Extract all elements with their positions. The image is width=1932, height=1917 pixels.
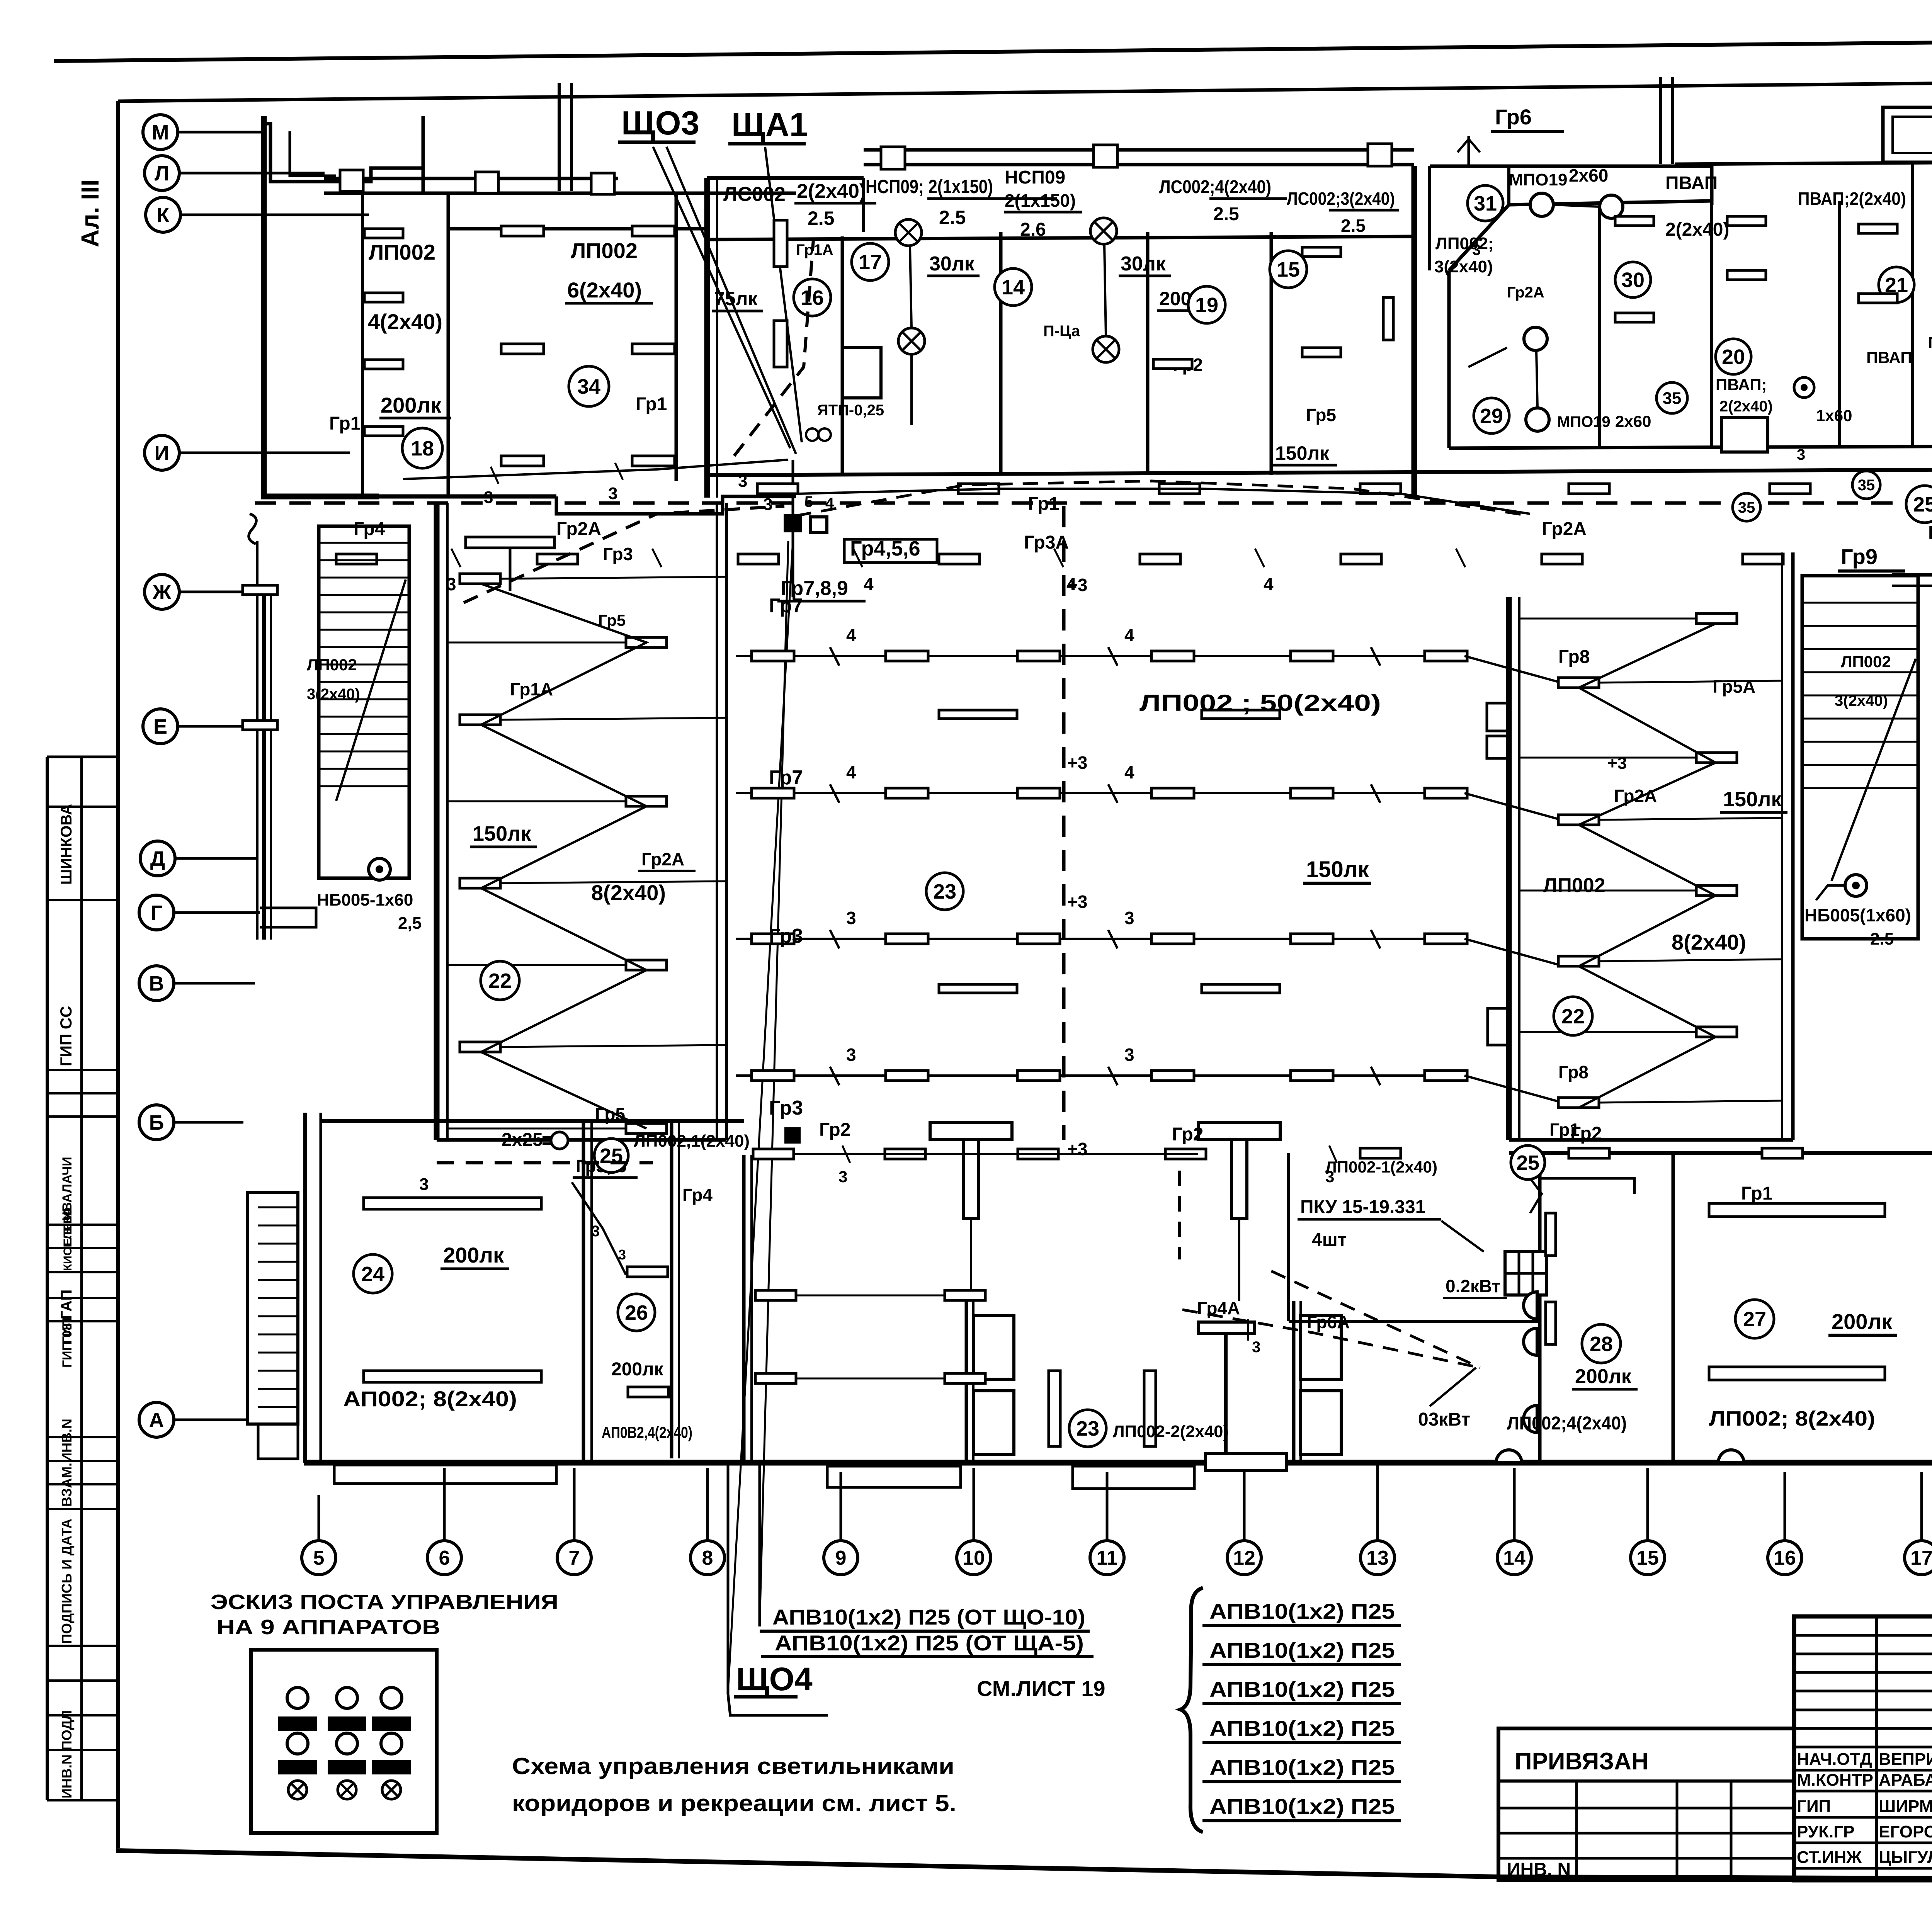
tambour stem line	[1238, 1219, 1240, 1301]
wall divider room18	[447, 193, 450, 496]
fixture far-left a	[243, 585, 277, 595]
room 22 right	[1554, 997, 1592, 1035]
svg-text:ШИРМАНОВ: ШИРМАНОВ	[1879, 1797, 1932, 1816]
svg-text:9: 9	[835, 1547, 847, 1569]
canopy bottom line	[864, 163, 1414, 167]
stamp row sep	[47, 1714, 118, 1716]
fixture room15 vert	[1383, 297, 1393, 340]
stair tread	[1802, 718, 1918, 720]
column grid 6	[427, 1468, 461, 1575]
fixture vert vestibule	[1049, 1371, 1060, 1446]
svg-text:3: 3	[618, 1247, 626, 1263]
fixture 28 vert	[1546, 1213, 1556, 1256]
svg-text:ЛП002: ЛП002	[1841, 653, 1891, 671]
svg-text:2.5: 2.5	[1213, 204, 1239, 224]
svg-text:А: А	[149, 1409, 164, 1432]
fixture wing left col B	[626, 796, 667, 806]
stair tread	[1802, 764, 1918, 766]
dashed Гр4А	[1182, 1310, 1480, 1368]
fixture corridor bottom row	[1762, 1148, 1803, 1158]
bulb room31 b	[1600, 195, 1623, 218]
svg-text:18: 18	[411, 437, 434, 460]
fixture hall row	[886, 1071, 928, 1081]
room 15	[1270, 251, 1307, 288]
fixture room19	[1153, 359, 1192, 369]
wall lamp bottom	[1496, 1450, 1522, 1463]
svg-text:ИНВ. N: ИНВ. N	[1507, 1859, 1571, 1880]
stamp row sep	[47, 1749, 118, 1751]
svg-text:Гр6А: Гр6А	[1307, 1312, 1350, 1332]
svg-text:2(1х150): 2(1х150)	[1005, 190, 1076, 211]
svg-text:2.5: 2.5	[808, 207, 835, 229]
fixture hall row	[1425, 1071, 1467, 1081]
svg-text:150лк: 150лк	[1723, 788, 1782, 811]
fixture hall row	[1425, 651, 1467, 661]
wall south of 29/35	[1449, 446, 1932, 448]
svg-text:Е: Е	[153, 715, 167, 738]
stamp row sep	[47, 1069, 118, 1071]
wire lamps 14	[1104, 244, 1106, 336]
svg-text:2(2х40): 2(2х40)	[1719, 398, 1773, 415]
svg-text:Гр5: Гр5	[598, 611, 626, 629]
dashed room16	[734, 240, 813, 456]
room 34	[569, 366, 609, 406]
svg-text:Гр1А: Гр1А	[796, 241, 833, 258]
fixture wing right col B	[1696, 1027, 1737, 1037]
stair tread	[319, 646, 409, 648]
column grid 15	[1631, 1468, 1665, 1575]
duct box hall wall b	[1487, 736, 1509, 758]
wall lamp Д	[1524, 1405, 1537, 1433]
svg-text:4: 4	[1264, 574, 1274, 594]
fixture hall row	[1291, 1071, 1333, 1081]
fixture hall row	[1291, 788, 1333, 798]
canopy post	[475, 172, 498, 193]
column grid 16	[1768, 1472, 1802, 1575]
svg-text:200лк: 200лк	[443, 1243, 504, 1267]
wire node vertical	[792, 460, 794, 514]
stair tread	[1802, 602, 1918, 604]
svg-text:2.5: 2.5	[1341, 216, 1366, 236]
wire row to wing	[1464, 939, 1558, 965]
svg-text:НБ005-1х60: НБ005-1х60	[317, 891, 413, 909]
svg-text:0.2кВт: 0.2кВт	[1446, 1276, 1500, 1296]
door posts	[966, 1301, 1014, 1463]
wire zigzag wing	[481, 584, 646, 1128]
sheet bottom border	[116, 1851, 1932, 1881]
wall vestibule left	[742, 1155, 746, 1463]
fixture hall row	[1425, 788, 1467, 798]
main dashed feeder	[255, 501, 1932, 505]
svg-text:4: 4	[846, 762, 856, 782]
stair tread bottom-left	[258, 1370, 298, 1372]
stair tread	[319, 542, 409, 544]
svg-text:Б: Б	[149, 1111, 164, 1134]
riser to ЩО4 b	[728, 541, 793, 1692]
bulb room29 b	[1526, 408, 1549, 431]
stair tread	[319, 681, 409, 683]
wall stub	[862, 178, 865, 232]
svg-text:ПКУ 15-19.331: ПКУ 15-19.331	[1300, 1197, 1425, 1217]
svg-text:РУК.ГР: РУК.ГР	[1797, 1822, 1855, 1841]
svg-text:8(2х40): 8(2х40)	[1672, 930, 1746, 954]
stamp row sep	[47, 1483, 118, 1485]
fixture wing left col B	[626, 960, 667, 970]
title block	[1794, 1616, 1932, 1880]
fixture hall row	[1151, 788, 1194, 798]
svg-text:Ал. III: Ал. III	[76, 179, 104, 247]
svg-text:2,5: 2,5	[398, 914, 422, 933]
fixture vestibule	[945, 1373, 985, 1383]
svg-text:3: 3	[1124, 908, 1134, 928]
svg-text:4(2х40): 4(2х40)	[368, 309, 442, 334]
exterior step right	[1073, 1466, 1194, 1489]
stair tread bottom-left	[258, 1225, 298, 1227]
wire corridor Гр1	[798, 489, 1530, 514]
column grid 7	[557, 1468, 591, 1575]
stair tread	[1802, 741, 1918, 743]
wall divider room34 right	[675, 193, 678, 481]
svg-text:+3: +3	[1067, 753, 1087, 773]
svg-text:2.5: 2.5	[1870, 930, 1894, 948]
fixture corridor south row	[1341, 554, 1381, 564]
wall 28 left	[1538, 1153, 1542, 1463]
wall slanted room31	[1449, 166, 1712, 270]
stub below	[509, 548, 512, 591]
fixture corridor south row	[1743, 554, 1783, 564]
svg-text:Д: Д	[150, 847, 165, 870]
svg-text:Гр2А: Гр2А	[556, 519, 601, 539]
stair tread bottom-left	[258, 1406, 298, 1408]
T pillar	[1198, 1322, 1287, 1470]
svg-text:3: 3	[608, 484, 617, 503]
stair tread	[1802, 625, 1918, 627]
fixture hall row	[1291, 651, 1333, 661]
svg-text:ЯТП-0,25: ЯТП-0,25	[817, 402, 884, 419]
svg-text:34: 34	[577, 375, 600, 398]
svg-text:24: 24	[361, 1263, 384, 1286]
wire Гр1	[403, 460, 788, 479]
fixture room34	[632, 456, 675, 466]
stair tread	[319, 664, 409, 666]
exterior step	[827, 1466, 961, 1487]
fixture hall row	[886, 651, 928, 661]
stair tread bottom-left	[258, 1334, 298, 1336]
svg-text:2х25: 2х25	[502, 1130, 543, 1150]
stair tread bottom-left	[258, 1315, 298, 1317]
svg-text:П-Ца: П-Ца	[1043, 323, 1080, 340]
wall 24 right b	[590, 1121, 593, 1463]
panel box	[1505, 1252, 1547, 1295]
stamp row sep	[47, 1115, 118, 1118]
fixture corridor row	[1770, 484, 1810, 494]
wall south of hall right	[1509, 1151, 1932, 1155]
stamp row sep	[47, 1645, 118, 1647]
tambour T canopy	[1198, 1122, 1280, 1219]
fixture wing right col B	[1696, 885, 1737, 896]
svg-text:3: 3	[484, 488, 493, 507]
row letter Г	[139, 895, 260, 930]
fixture room15	[1302, 348, 1341, 357]
fixture hall center	[1202, 710, 1280, 719]
wall niche 28	[1538, 1178, 1634, 1194]
canopy post	[591, 173, 614, 194]
stair landing	[258, 1424, 298, 1459]
stair tread	[319, 768, 409, 770]
fixture corridor row	[1569, 484, 1609, 494]
stair block left	[319, 526, 409, 878]
svg-text:3: 3	[846, 1045, 856, 1065]
svg-text:29: 29	[1480, 404, 1503, 428]
stamp row sep	[47, 1271, 118, 1273]
svg-text:4: 4	[846, 625, 856, 645]
line above block 2	[570, 83, 573, 191]
wall building bottom	[304, 1460, 1932, 1466]
fixture corridor south row	[939, 554, 980, 564]
fixture hall row	[1151, 1071, 1194, 1081]
lamp room14 lower	[1093, 336, 1119, 362]
svg-text:4: 4	[1124, 625, 1134, 645]
canopy post	[340, 170, 363, 191]
svg-text:23: 23	[933, 880, 956, 903]
portal inner	[1893, 117, 1932, 153]
svg-text:Гр9: Гр9	[1841, 544, 1878, 569]
svg-text:3: 3	[846, 908, 856, 928]
bulb room31	[1530, 193, 1553, 216]
fixture corridor bottom row	[1018, 1149, 1058, 1159]
row letter Л	[145, 156, 325, 190]
svg-text:М.КОНТР: М.КОНТР	[1797, 1771, 1873, 1790]
stair tread bottom-left	[258, 1261, 298, 1263]
wall vertical above block	[1659, 77, 1662, 164]
stamp row sep	[47, 899, 118, 901]
wall 26 right b	[678, 1121, 680, 1458]
svg-text:15: 15	[1636, 1547, 1659, 1569]
svg-text:15: 15	[1277, 258, 1300, 281]
duct box hall wall a	[1487, 703, 1509, 731]
svg-text:Л: Л	[155, 162, 169, 185]
svg-text:6(2х40): 6(2х40)	[567, 278, 642, 302]
svg-text:ГАП: ГАП	[58, 1290, 75, 1319]
stair tread	[1802, 695, 1918, 697]
svg-text:13: 13	[1366, 1547, 1389, 1569]
fixture below block	[466, 537, 554, 548]
node 25 bottom left	[594, 1139, 628, 1173]
tambour T canopy	[930, 1122, 1012, 1219]
wall 26 right a	[670, 1121, 673, 1458]
svg-text:03кВт: 03кВт	[1418, 1409, 1470, 1430]
fixture room34	[632, 344, 675, 354]
svg-text:АП0В2,4(2х40): АП0В2,4(2х40)	[602, 1423, 692, 1441]
svg-text:30: 30	[1621, 269, 1645, 292]
svg-text:Гр4: Гр4	[354, 519, 385, 539]
row letter М	[143, 115, 267, 150]
door posts	[1294, 1301, 1341, 1463]
svg-text:14: 14	[1503, 1547, 1526, 1569]
svg-text:28: 28	[1590, 1332, 1613, 1356]
svg-text:Гр8: Гр8	[1558, 1062, 1588, 1082]
svg-text:6: 6	[439, 1547, 450, 1569]
room 26	[627, 1267, 668, 1277]
wall 14|x	[1146, 232, 1150, 475]
row letter И	[145, 435, 350, 470]
wall 30|20	[1710, 205, 1713, 448]
attachment table	[1498, 1728, 1794, 1880]
svg-text:АПВ10(1х2) П25: АПВ10(1х2) П25	[1209, 1638, 1395, 1662]
stamp column mid line	[80, 757, 83, 1800]
svg-text:ЛП002; 8(2х40): ЛП002; 8(2х40)	[1709, 1407, 1875, 1430]
row letter Д	[140, 841, 257, 876]
row letter В	[139, 966, 255, 1001]
lamp room14	[1090, 218, 1117, 244]
svg-text:ПВАП: ПВАП	[1928, 334, 1932, 351]
fixture corridor bottom row	[1569, 1148, 1609, 1158]
svg-text:АПВ10(1х2) П25 (ОТ ЩО-10): АПВ10(1х2) П25 (ОТ ЩО-10)	[772, 1605, 1085, 1629]
wall left of block 18/34	[264, 116, 379, 496]
svg-text:22: 22	[488, 969, 512, 992]
room 28	[1582, 1324, 1621, 1363]
svg-text:10: 10	[963, 1547, 985, 1569]
svg-text:Гр5А: Гр5А	[1713, 676, 1755, 697]
svg-text:3: 3	[838, 1168, 847, 1186]
feeder list braces	[1180, 1588, 1203, 1832]
wall 16|17	[841, 236, 844, 475]
leader ЩА1 to room16	[765, 147, 802, 442]
column grid 11	[1090, 1472, 1124, 1575]
fixture corridor row	[958, 484, 999, 494]
stamp row sep	[47, 1460, 118, 1462]
svg-text:АПВ10(1х2) П25: АПВ10(1х2) П25	[1209, 1599, 1395, 1623]
svg-text:+3: +3	[1067, 1139, 1087, 1159]
wall left room16	[704, 178, 710, 498]
svg-text:2.5: 2.5	[939, 207, 966, 228]
fixture room15	[1302, 247, 1341, 257]
svg-text:150лк: 150лк	[473, 822, 531, 845]
stair tread bottom-left	[258, 1207, 298, 1208]
svg-text:Гр1А: Гр1А	[510, 679, 553, 699]
fixture hall row	[1425, 934, 1467, 944]
svg-text:3(2х40): 3(2х40)	[307, 686, 360, 703]
fixture hall row	[1017, 651, 1060, 661]
svg-text:19: 19	[1195, 294, 1218, 317]
svg-text:8(2х40): 8(2х40)	[591, 880, 666, 905]
wall 17|14	[999, 232, 1003, 475]
column grid 14	[1497, 1468, 1531, 1575]
fixture hall row	[1017, 1071, 1060, 1081]
fixture hall row	[752, 1071, 794, 1081]
svg-text:35: 35	[1738, 499, 1755, 516]
svg-text:ЛП002-2(2х40): ЛП002-2(2х40)	[1113, 1422, 1229, 1441]
canopy line lower	[324, 192, 796, 195]
wall top right band	[1675, 162, 1932, 164]
fixture hall row	[1291, 934, 1333, 944]
svg-text:Гр4: Гр4	[1928, 523, 1932, 543]
svg-text:Гр1: Гр1	[329, 413, 361, 434]
wall top of room24 band	[321, 1119, 744, 1123]
svg-text:+3: +3	[1067, 892, 1087, 912]
fixture corridor bottom row	[1165, 1149, 1206, 1159]
fixture vestibule	[755, 1373, 796, 1383]
wall 19|15	[1270, 232, 1273, 475]
stamp row sep	[47, 1092, 118, 1094]
column grid 12	[1227, 1464, 1261, 1575]
lamp НБ005 right	[1845, 875, 1867, 896]
svg-text:Гр2А: Гр2А	[1507, 284, 1544, 301]
wall bottom-left outer a	[303, 1113, 307, 1463]
row letter Ж	[145, 574, 241, 609]
wall top	[1430, 165, 1712, 168]
svg-text:АРАБАДЖИ: АРАБАДЖИ	[1879, 1771, 1932, 1790]
wall entry jog	[264, 124, 423, 182]
svg-text:150лк: 150лк	[1306, 857, 1369, 882]
room 35	[1656, 382, 1687, 413]
room 26	[618, 1294, 655, 1331]
fixture wing left col A	[460, 1042, 500, 1052]
dashed Гр6А	[1271, 1271, 1480, 1368]
svg-text:200лк: 200лк	[1832, 1309, 1893, 1334]
svg-text:ЛП002: ЛП002	[571, 238, 638, 263]
wall top vertical	[422, 116, 425, 193]
fixture vertical room16	[774, 220, 787, 267]
stair tread	[1802, 787, 1918, 789]
svg-text:НА 9 АППАРАТОВ: НА 9 АППАРАТОВ	[216, 1616, 440, 1639]
stair tread	[319, 629, 409, 631]
svg-text:НБ005(1х60): НБ005(1х60)	[1804, 905, 1911, 925]
svg-text:ЛС002: ЛС002	[723, 183, 786, 206]
room 18	[402, 428, 442, 468]
svg-text:Схема управления светильника: Схема управления светильниками	[512, 1753, 954, 1779]
fixture room18	[364, 427, 403, 436]
svg-text:ВЗАМ.ИНВ.N: ВЗАМ.ИНВ.N	[59, 1419, 75, 1507]
svg-text:ЛС002;4(2х40): ЛС002;4(2х40)	[1159, 177, 1271, 197]
svg-text:4: 4	[1124, 762, 1134, 782]
fixture wing left col A	[460, 878, 500, 888]
svg-text:Гр7,8,9: Гр7,8,9	[781, 577, 848, 600]
wall right wing left	[1506, 597, 1512, 1140]
fixture corridor bottom row	[885, 1149, 925, 1159]
svg-text:2(2х40): 2(2х40)	[797, 180, 866, 202]
stair tread bottom-left	[258, 1352, 298, 1354]
svg-text:16: 16	[801, 286, 824, 309]
svg-text:150лк: 150лк	[1275, 442, 1330, 464]
svg-text:Гр5: Гр5	[1306, 405, 1336, 425]
svg-text:коридоров и рекреации см. л: коридоров и рекреации см. лист 5.	[512, 1790, 956, 1816]
svg-text:ПРИВЯЗАН: ПРИВЯЗАН	[1515, 1748, 1649, 1775]
fixture hall row	[752, 651, 794, 661]
stair well bottom-left	[247, 1192, 298, 1424]
svg-text:Гр1: Гр1	[1741, 1183, 1772, 1204]
fixture wing right col A	[1558, 815, 1599, 825]
room 14	[995, 269, 1032, 306]
svg-text:ПВАП: ПВАП	[1866, 348, 1912, 367]
stair tread bottom-left	[258, 1279, 298, 1281]
dashed branch left	[464, 506, 784, 603]
stair tread bottom-left	[258, 1388, 298, 1390]
svg-text:30лк: 30лк	[1121, 253, 1166, 275]
room 16	[794, 279, 831, 316]
svg-text:ЕГОРОВА: ЕГОРОВА	[1879, 1822, 1932, 1841]
svg-text:ГИП: ГИП	[1797, 1797, 1831, 1816]
canopy line upper	[324, 177, 618, 180]
fixture room18	[364, 293, 403, 302]
svg-text:3: 3	[1472, 241, 1481, 258]
stair tread	[319, 612, 409, 614]
wall lamp Д	[1524, 1292, 1537, 1319]
dashed branch right	[796, 481, 1530, 516]
stamp row sep	[47, 1224, 118, 1226]
svg-text:3(2х40): 3(2х40)	[1835, 692, 1888, 709]
fixture wing right col B	[1696, 753, 1737, 763]
